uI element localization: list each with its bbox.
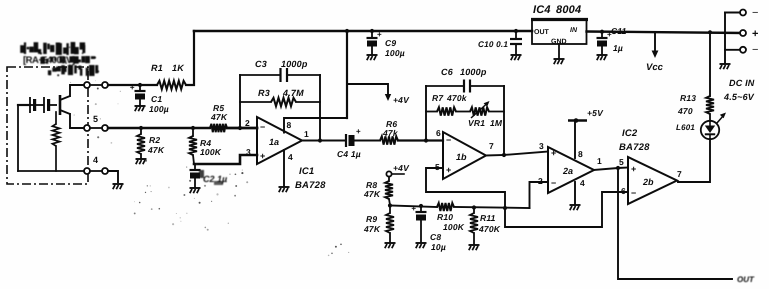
- wire 1b feedback left leg: [425, 86, 427, 141]
- capacitor C4 1u: [346, 127, 361, 147]
- svg-text:+: +: [260, 151, 265, 161]
- ground C11: [597, 55, 608, 60]
- label pin 6: [436, 128, 441, 138]
- photo detector element D1: [30, 97, 44, 113]
- label C3 1000p: [255, 59, 308, 69]
- svg-text:4.5~6V: 4.5~6V: [723, 92, 755, 102]
- label pin 5: [435, 162, 440, 172]
- label IC4 8004: [533, 4, 581, 16]
- label R6 47k: [382, 119, 399, 138]
- terminal DC plus: [740, 30, 746, 36]
- label pin GND: [551, 39, 567, 46]
- terminal +4V bias: [386, 171, 404, 176]
- capacitor C11 1u: [597, 30, 613, 54]
- svg-text:IC1: IC1: [299, 166, 314, 177]
- wire R6 to op-amp 1b pin6: [398, 139, 443, 141]
- wire op-amp 1a pin8 supply: [284, 31, 347, 133]
- label pin 8: [287, 120, 292, 130]
- Vcc arrow: [652, 32, 659, 58]
- junction R2 top: [139, 126, 143, 130]
- capacitor C10 0.1: [510, 31, 522, 54]
- svg-text:4: 4: [288, 152, 293, 162]
- junction R11 top: [472, 205, 476, 209]
- svg-text:L601: L601: [676, 123, 695, 132]
- wire feedback to output: [319, 75, 321, 141]
- label pin IN: [570, 27, 578, 34]
- label pin 8 (2a): [578, 149, 583, 159]
- ground R9: [385, 243, 396, 248]
- svg-text:−: −: [446, 135, 451, 145]
- op-amp U2b: [628, 157, 677, 204]
- svg-text:1000p: 1000p: [281, 59, 308, 69]
- svg-text:R11: R11: [480, 213, 496, 223]
- svg-text:100K: 100K: [443, 222, 465, 232]
- svg-text:C8: C8: [430, 232, 441, 242]
- svg-text:−: −: [551, 178, 556, 188]
- terminal sensor pin1 (circuit side): [90, 82, 108, 88]
- label plus input 2a: [551, 148, 556, 158]
- svg-text:R3: R3: [258, 88, 270, 98]
- svg-text:+: +: [752, 28, 758, 40]
- wire R3 row left: [240, 101, 271, 103]
- junction R13 top: [708, 30, 712, 34]
- junction 1b feedback left: [424, 138, 428, 142]
- photo detector element D2: [44, 97, 57, 113]
- resistor R8: [385, 177, 393, 206]
- label +4V bias: [393, 163, 410, 173]
- svg-text:1: 1: [597, 156, 602, 166]
- ground IC4: [554, 59, 565, 64]
- wire 1b pin5 loop: [426, 168, 505, 208]
- label C8 10u: [430, 232, 446, 252]
- svg-text:100K: 100K: [200, 147, 222, 157]
- label Vcc: [646, 62, 664, 73]
- svg-text:7: 7: [489, 141, 494, 151]
- svg-text:BA728: BA728: [619, 142, 650, 153]
- terminal DC minus (top): [725, 10, 746, 16]
- label pin 1 (2a): [597, 156, 602, 166]
- svg-text:1a: 1a: [269, 137, 279, 147]
- junction node B: [503, 206, 507, 210]
- svg-text:C9: C9: [385, 38, 396, 48]
- svg-text:47k: 47k: [382, 128, 399, 138]
- label pin 5 (2b): [619, 157, 624, 167]
- svg-text:+: +: [377, 30, 382, 39]
- wire VR1 to right leg: [489, 111, 504, 113]
- label R1 1K: [151, 63, 185, 73]
- label minus top: [752, 7, 758, 19]
- terminal sensor pin3 (box side): [84, 168, 90, 174]
- ground R2: [136, 159, 147, 164]
- label pin 7 (2b): [677, 169, 682, 179]
- wire +4V branch arrow: [347, 84, 391, 101]
- label R11 470K: [478, 213, 501, 234]
- svg-text:−: −: [631, 188, 636, 198]
- resistor R13: [706, 32, 714, 114]
- resistor R4: [189, 128, 197, 164]
- svg-text:C4 1µ: C4 1µ: [337, 149, 361, 159]
- capacitor C9 100u: [367, 30, 383, 54]
- junction C9 top: [370, 29, 374, 33]
- scan noise speckles: [70, 80, 349, 256]
- LED L601: [701, 113, 726, 140]
- label C10 0.1: [478, 40, 508, 49]
- ground sensor return: [113, 184, 124, 189]
- label pin 4 (2a): [580, 178, 585, 188]
- label pin 1: [304, 129, 309, 139]
- label minus input 2a: [551, 178, 556, 188]
- resistor R9: [386, 206, 394, 243]
- svg-text:Vсс: Vсс: [646, 62, 664, 73]
- label +5V: [587, 108, 604, 118]
- svg-text:4: 4: [580, 178, 585, 188]
- label plus input 2b: [631, 164, 636, 174]
- svg-text:2b: 2b: [642, 177, 654, 187]
- label pin 7: [489, 141, 494, 151]
- svg-text:R10: R10: [437, 212, 453, 222]
- svg-text:3: 3: [246, 147, 251, 157]
- junction C11 top: [600, 30, 604, 34]
- wire op-amp 1a pin4: [283, 150, 285, 186]
- label pin 4: [93, 155, 98, 165]
- wire sensor pin1 to R1: [108, 84, 157, 86]
- wire R5 to op-amp 1a pin2: [227, 127, 257, 130]
- junction feedback output: [318, 138, 322, 142]
- capacitor C6 1000p: [426, 80, 504, 93]
- svg-text:470: 470: [677, 106, 693, 116]
- svg-text:1b: 1b: [456, 152, 467, 162]
- svg-text:8: 8: [287, 120, 292, 130]
- terminal sensor pin2 (box side): [84, 125, 90, 131]
- ground C2: [190, 188, 201, 193]
- svg-text:5: 5: [93, 114, 98, 124]
- svg-text:1µ: 1µ: [613, 43, 623, 53]
- label pin OUT: [534, 29, 550, 36]
- junction C8 top: [419, 204, 423, 208]
- label R9 47K: [363, 214, 381, 234]
- junction C10 top: [514, 29, 518, 33]
- svg-text:47K: 47K: [147, 145, 165, 155]
- label OUT: [737, 275, 755, 284]
- label minus bottom: [752, 44, 758, 56]
- label plus input 1a: [260, 151, 265, 161]
- label VR1 1M: [468, 118, 503, 128]
- ground R11: [469, 245, 480, 250]
- wire bias node line: [390, 206, 530, 209]
- label plus: [752, 28, 758, 40]
- label L601: [676, 123, 695, 132]
- op-amp U2a (IC2 BA728 2a): [548, 147, 594, 193]
- svg-text:5: 5: [619, 157, 624, 167]
- label R4 100K: [200, 138, 222, 157]
- svg-text:4.7M: 4.7M: [282, 88, 304, 98]
- supply +5V bar: [568, 118, 587, 158]
- capacitor C3 1000p: [240, 68, 320, 82]
- op-amp U1a (IC1 BA728 1a): [257, 117, 302, 164]
- label R8 47K: [363, 180, 381, 199]
- label pin 2 (2a): [538, 176, 543, 186]
- label R3 4.7M: [258, 88, 304, 98]
- label C11 1u: [611, 26, 627, 53]
- label R7 470k: [432, 93, 468, 103]
- label R5 47K: [210, 103, 228, 122]
- resistor R6: [380, 136, 398, 144]
- resistor R1: [157, 81, 186, 89]
- wire R7 row: [426, 111, 437, 113]
- svg-text:R9: R9: [366, 214, 377, 224]
- svg-text:8: 8: [578, 149, 583, 159]
- ground DC input: [720, 64, 731, 69]
- svg-text:6: 6: [436, 128, 441, 138]
- label R13 470: [677, 93, 696, 116]
- wire R1 to +4V rail: [186, 31, 194, 85]
- svg-text:1: 1: [304, 129, 309, 139]
- svg-text:−: −: [752, 44, 758, 56]
- resistor R5: [210, 124, 227, 132]
- resistor R2: [137, 128, 145, 158]
- junction rail to op-amp supply: [345, 29, 349, 33]
- terminal DC minus (bottom): [725, 47, 746, 53]
- svg-text:10µ: 10µ: [431, 242, 446, 252]
- op-amp U1b: [443, 132, 486, 179]
- wire feedback node to R3/C3: [239, 75, 241, 128]
- svg-text:OUT: OUT: [534, 29, 550, 36]
- capacitor C8 10u: [411, 204, 426, 242]
- label C4 1u: [337, 149, 361, 159]
- ground op-amp 1a pin4: [279, 187, 290, 192]
- capacitor C1 100u: [130, 83, 146, 105]
- svg-text:R1: R1: [151, 63, 163, 73]
- label pin 2: [245, 118, 250, 128]
- wire op-amp 1a output: [302, 140, 345, 142]
- label minus input 1b: [446, 135, 451, 145]
- svg-text:R7: R7: [432, 93, 444, 103]
- label pin 4: [288, 152, 293, 162]
- junction C1 top: [138, 83, 142, 87]
- svg-text:47K: 47K: [210, 112, 228, 122]
- label module part number [RA-E4004V] (smudged): [23, 55, 99, 76]
- label 4.5-6V: [723, 92, 755, 102]
- svg-text:+: +: [446, 165, 451, 175]
- svg-text:IC4: IC4: [533, 4, 551, 16]
- label C9 100u: [385, 38, 405, 58]
- infrared receiver module enclosure (dash-dot box): [7, 67, 88, 184]
- resistor R11: [470, 208, 478, 245]
- svg-text:+: +: [130, 83, 135, 92]
- svg-text:−: −: [260, 122, 265, 132]
- ground C9: [367, 55, 378, 60]
- wire sensor pin3 to ground: [108, 171, 118, 182]
- wire output tap down: [618, 168, 732, 279]
- wire detector left leg: [18, 105, 30, 171]
- wire sensor pin2 line: [108, 127, 210, 129]
- svg-text:C11: C11: [611, 26, 627, 36]
- svg-text:R13: R13: [680, 93, 696, 103]
- svg-text:47K: 47K: [363, 189, 381, 199]
- svg-text:OUT: OUT: [737, 275, 755, 284]
- label minus input 1a: [260, 122, 265, 132]
- svg-text:C10 0.1: C10 0.1: [478, 40, 508, 49]
- svg-text:3: 3: [539, 141, 544, 151]
- label pin 6 (2b): [621, 186, 626, 196]
- wire Q1 collector to pin-1 line: [70, 85, 84, 96]
- svg-text:−: −: [752, 7, 758, 19]
- terminal sensor pin2 (circuit side): [90, 125, 108, 131]
- svg-text:2: 2: [538, 176, 543, 186]
- svg-text:470K: 470K: [478, 224, 501, 234]
- label R10 100K: [437, 212, 465, 232]
- resistor internal (sensor load): [52, 112, 59, 171]
- svg-text:100µ: 100µ: [385, 48, 405, 58]
- label R2 47K: [147, 135, 165, 155]
- resistor R10: [437, 203, 454, 211]
- svg-text:C1: C1: [151, 94, 162, 104]
- svg-text:1M: 1M: [490, 118, 503, 128]
- svg-text:1000p: 1000p: [460, 67, 487, 77]
- svg-text:VR1: VR1: [468, 118, 485, 128]
- wire R3 row right: [296, 101, 320, 103]
- wire R7 to VR1: [456, 111, 470, 113]
- label C2 1u (smudged): [199, 170, 227, 185]
- svg-text:DC IN: DC IN: [729, 78, 755, 88]
- label IC1: [299, 166, 314, 177]
- label BA728 (IC1): [295, 180, 326, 191]
- svg-text:4: 4: [93, 155, 98, 165]
- junction R4 top: [191, 126, 195, 130]
- wire +4V rail (regulator output): [194, 30, 532, 33]
- svg-text:C6: C6: [441, 67, 454, 77]
- wire LED to op-amp 2b output: [678, 139, 710, 182]
- wire 1b output to 2a pin3: [486, 152, 548, 156]
- svg-text:+4V: +4V: [393, 95, 410, 105]
- svg-text:+: +: [356, 127, 361, 136]
- wire R4/C2 node to op-amp 1a pin3: [194, 155, 257, 164]
- svg-text:R2: R2: [149, 135, 160, 145]
- wire sensor internal ground rail: [18, 170, 84, 172]
- wire node to 2b pin6: [505, 192, 628, 227]
- svg-text:1K: 1K: [172, 63, 185, 73]
- resistor R3: [271, 98, 296, 106]
- svg-text:7: 7: [677, 169, 682, 179]
- label +4V (op-amp supply): [393, 95, 410, 105]
- junction bias node: [388, 203, 392, 207]
- label IC2: [622, 128, 638, 139]
- label BA728 (IC2): [619, 142, 650, 153]
- wire node to 2a pin2: [530, 182, 549, 208]
- svg-text:+: +: [551, 148, 556, 158]
- svg-text:8004: 8004: [556, 4, 581, 16]
- label pin 3 (2a): [539, 141, 544, 151]
- terminal sensor pin3 (circuit side): [90, 168, 108, 174]
- svg-text:47K: 47K: [363, 224, 381, 234]
- label C1 100u: [149, 94, 169, 114]
- ground C1: [135, 106, 146, 111]
- wire 2a output to 2b pin5: [594, 168, 628, 171]
- wire 1b feedback right leg: [503, 86, 505, 155]
- capacitor C2 1u: [190, 164, 201, 187]
- wire IC4 GND pin: [558, 44, 560, 58]
- label pin 5: [93, 114, 98, 124]
- svg-text:IN: IN: [570, 27, 578, 34]
- svg-text:+5V: +5V: [587, 108, 604, 118]
- ground 2a pin4: [570, 205, 581, 210]
- svg-text:6: 6: [621, 186, 626, 196]
- svg-text:2: 2: [245, 118, 250, 128]
- wire 2a pin4: [574, 182, 576, 204]
- resistor R7: [437, 107, 456, 115]
- regulator IC4 8004 body: [531, 19, 588, 44]
- wire DC minus bus: [724, 13, 726, 64]
- phototransistor Q1: [60, 95, 70, 115]
- label pin 3: [246, 147, 251, 157]
- svg-text:BA728: BA728: [295, 180, 326, 191]
- svg-text:C3: C3: [255, 59, 267, 69]
- ground C8: [416, 243, 427, 248]
- potentiometer VR1 1M: [470, 101, 490, 118]
- junction feedback left: [238, 126, 242, 130]
- svg-text:470k: 470k: [446, 93, 468, 103]
- wire C4 to R6: [355, 140, 380, 142]
- svg-text:2a: 2a: [562, 166, 573, 176]
- junction output tap: [616, 166, 620, 170]
- wire Q1 emitter to pin-2 line: [70, 114, 84, 128]
- label module name (smudged Japanese text): [20, 42, 85, 55]
- label plus input 1b: [446, 165, 451, 175]
- svg-text:+4V: +4V: [393, 163, 410, 173]
- junction 1b output feedback: [502, 153, 506, 157]
- label DC IN: [729, 78, 755, 88]
- svg-text:+: +: [631, 164, 636, 174]
- svg-text:[RA·E4004V]: [RA·E4004V]: [23, 55, 75, 66]
- label C6 1000p: [441, 67, 487, 77]
- terminal sensor pin1 (box side): [84, 82, 90, 88]
- svg-text:100µ: 100µ: [149, 104, 169, 114]
- wire IC4 IN to DC input: [587, 32, 744, 34]
- svg-text:IC2: IC2: [622, 128, 638, 139]
- svg-text:+: +: [411, 204, 416, 213]
- ground C10: [511, 55, 522, 60]
- svg-text:5: 5: [435, 162, 440, 172]
- label minus input 2b: [631, 188, 636, 198]
